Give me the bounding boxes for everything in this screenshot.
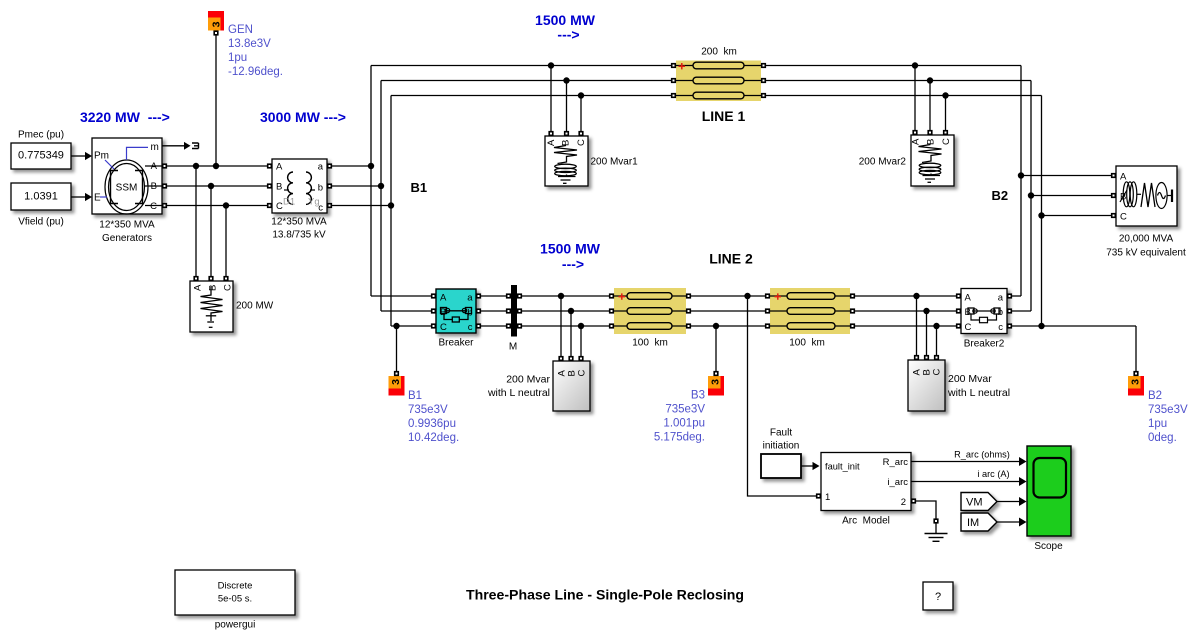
svg-text:Arc Model: Arc Model [842, 516, 890, 527]
wire transformer-b to left bus B [330, 185, 382, 187]
port 200MW B [208, 276, 213, 281]
generator 12*350 MVA Generators (SSM) [92, 138, 162, 244]
svg-text:C: C [932, 369, 943, 376]
node bus A junction [368, 163, 374, 169]
svg-text:D1: D1 [283, 197, 295, 208]
port 100km2 right A [850, 293, 855, 298]
port MvarL-left B [568, 356, 573, 361]
svg-text:Vfield (pu): Vfield (pu) [18, 217, 64, 228]
port transformer C [267, 203, 272, 208]
port LINE1 right C [761, 93, 766, 98]
port Breaker2 A [956, 293, 961, 298]
svg-text:1.001pu: 1.001pu [663, 418, 705, 430]
svg-text:?: ? [935, 591, 941, 603]
svg-text:3: 3 [390, 379, 402, 385]
wire breaker to M bus row A [479, 295, 509, 297]
wire MvarL-right drop B [926, 311, 928, 358]
wire breaker to M bus row C [479, 325, 509, 327]
ground symbol [925, 518, 948, 541]
port Breaker2 b [1007, 308, 1012, 313]
wire MvarL-right drop C [936, 326, 938, 358]
svg-text:VM: VM [966, 497, 983, 509]
wire source A [1021, 175, 1114, 177]
svg-text:Generators: Generators [102, 233, 152, 244]
svg-text:Scope: Scope [1034, 541, 1063, 552]
svg-text:1500 MW: 1500 MW [540, 241, 601, 257]
port Mvar2 B [927, 130, 932, 135]
node tap 200MW phase C [223, 202, 229, 208]
node tap GEN measurement [213, 163, 219, 169]
svg-text:B1: B1 [408, 390, 422, 402]
svg-text:Three-Phase Line - Single-Pole: Three-Phase Line - Single-Pole Reclosing [466, 587, 744, 603]
svg-text:b: b [318, 183, 323, 194]
wire right bus A vertical [1020, 66, 1022, 297]
wire IM to Scope [997, 518, 1027, 527]
port Breaker2 C [956, 323, 961, 328]
transmission line 100 km (second) [770, 288, 850, 349]
node source tap C [1038, 212, 1044, 218]
wire 100km1 to 100km2 row A [689, 295, 768, 297]
port Breaker2 c [1007, 323, 1012, 328]
text heading 1500 MW line2 [540, 241, 601, 273]
svg-text:200 Mvar: 200 Mvar [506, 374, 550, 386]
transformer 12*350 MVA 13.8/735 kV [271, 159, 327, 241]
wire fault tap to Arc Model input 1 [748, 296, 817, 496]
wire Breaker2-a to right bus A [1010, 295, 1022, 297]
svg-text:200 Mvar1: 200 Mvar1 [591, 157, 639, 168]
wire B2 measurement drop [1135, 326, 1137, 371]
wire source B [1031, 195, 1114, 197]
svg-text:c: c [468, 322, 473, 333]
svg-text:i_arc: i_arc [887, 477, 908, 488]
port Mvar1 A [548, 131, 553, 136]
svg-text:735e3V: 735e3V [408, 404, 448, 416]
svg-text:A: A [911, 138, 922, 145]
port generator C [162, 203, 167, 208]
wire 100km2 to Breaker2 row A [853, 295, 959, 297]
wire B3 measurement drop [715, 326, 717, 371]
wire Mvar2 drop C [945, 96, 947, 133]
wire LINE1 right row C [764, 95, 1042, 97]
svg-text:B: B [561, 140, 572, 146]
svg-text:m: m [151, 142, 159, 153]
svg-text:A: A [546, 139, 557, 146]
svg-text:1.0391: 1.0391 [24, 191, 58, 203]
wire MvarL-left drop A [560, 296, 562, 359]
wire transformer-a to left bus A [330, 165, 372, 167]
svg-text:12*350 MVA: 12*350 MVA [271, 217, 327, 228]
svg-text:A: A [440, 293, 447, 304]
wire LINE1 right row A [764, 65, 1022, 67]
wire 100km1 to 100km2 row C [689, 325, 768, 327]
port 100km2 right C [850, 323, 855, 328]
wire Mvar1 drop B [566, 81, 568, 134]
svg-text:c: c [998, 322, 1003, 333]
wire Breaker2-c to B2 measurement [1010, 325, 1137, 327]
svg-text:735e3V: 735e3V [1148, 404, 1188, 416]
port Breaker a [476, 293, 481, 298]
svg-text:A: A [276, 162, 283, 173]
svg-text:1pu: 1pu [1148, 418, 1167, 430]
port LINE1 left A [671, 63, 676, 68]
svg-text:Fault: Fault [770, 428, 792, 439]
shunt reactor 200 Mvar with L neutral (right) [908, 360, 1010, 411]
svg-text:0.9936pu: 0.9936pu [408, 418, 456, 430]
wire Mvar2 drop B [929, 81, 931, 133]
wire generator-A to transformer-A [165, 165, 270, 167]
svg-text:2: 2 [901, 497, 906, 508]
svg-text:a: a [318, 162, 324, 173]
svg-text:Pm: Pm [94, 151, 109, 162]
wire left bus C vertical [390, 96, 392, 327]
node fault tap phase A [744, 293, 750, 299]
svg-text:735 kV equivalent: 735 kV equivalent [1106, 248, 1186, 259]
shunt reactor 200 Mvar with L neutral (left) [487, 361, 590, 411]
transmission line LINE1 200 km [676, 47, 761, 125]
wire generator-C to transformer-C [165, 205, 270, 207]
node bus B junction [378, 183, 384, 189]
port 100km1 right C [686, 323, 691, 328]
constant Pmec (pu) 0.775349 [11, 130, 71, 170]
wire MvarL-right drop A [916, 296, 918, 358]
svg-text:LINE 1: LINE 1 [702, 108, 746, 124]
port B3 measurement [713, 371, 718, 376]
svg-text:Breaker2: Breaker2 [964, 339, 1005, 350]
port M right C [517, 323, 522, 328]
node B3 measurement tap [713, 323, 719, 329]
svg-text:R_arc (ohms): R_arc (ohms) [954, 450, 1010, 460]
svg-text:200 Mvar: 200 Mvar [948, 373, 992, 385]
svg-text:Yg: Yg [308, 197, 320, 208]
wire 100km2 to Breaker2 row B [853, 310, 959, 312]
port 100km2 left A [765, 293, 770, 298]
port MvarL-right A [914, 355, 919, 360]
text label B1 readout [408, 390, 459, 444]
measurement label block GEN [208, 11, 224, 31]
node Mvar2 tap A [912, 62, 918, 68]
bus bar M [509, 285, 517, 353]
port B2 measurement [1133, 371, 1138, 376]
wire Mvar1 drop A [550, 66, 552, 134]
port generator A [162, 163, 167, 168]
wire LINE1 right row B [764, 80, 1032, 82]
svg-text:initiation: initiation [763, 441, 800, 452]
port GEN measurement [213, 30, 218, 35]
node Mvar2 tap C [942, 92, 948, 98]
port source A [1111, 173, 1116, 178]
wire top row B to LINE1 [381, 80, 674, 82]
svg-text:0.775349: 0.775349 [18, 150, 64, 162]
svg-text:10.42deg.: 10.42deg. [408, 432, 459, 444]
port Breaker b [476, 308, 481, 313]
port Mvar2 C [943, 130, 948, 135]
svg-text:A: A [1120, 172, 1127, 183]
node MvarL-left tap C [578, 323, 584, 329]
svg-text:GEN: GEN [228, 24, 253, 36]
node source tap A [1018, 172, 1024, 178]
port 100km1 left B [609, 308, 614, 313]
svg-text:C: C [440, 322, 447, 333]
svg-text:1: 1 [825, 492, 830, 503]
port transformer c [327, 203, 332, 208]
svg-text:B3: B3 [691, 390, 705, 402]
from tag VM [961, 493, 997, 511]
wire fault initiation to Arc Model [801, 462, 820, 470]
wire MvarL-left drop C [580, 326, 582, 359]
port LINE1 right A [761, 63, 766, 68]
measurement label block B1 [389, 376, 405, 396]
svg-text:C: C [941, 138, 952, 145]
svg-text:a: a [998, 293, 1004, 304]
svg-text:E: E [94, 193, 101, 204]
node MvarL-right tap B [923, 308, 929, 314]
node right bus C junction [1038, 323, 1044, 329]
node MvarL-left tap B [568, 308, 574, 314]
wire 200MW phase A drop [195, 166, 197, 279]
port 100km2 left B [765, 308, 770, 313]
svg-text:B2: B2 [992, 188, 1009, 203]
wire right bus C vertical [1041, 96, 1043, 327]
wire bus to breaker B [381, 310, 434, 312]
svg-text:3: 3 [211, 21, 223, 27]
port Mvar1 B [564, 131, 569, 136]
svg-text:A: A [965, 293, 972, 304]
port 200MW C [223, 276, 228, 281]
svg-text:C: C [223, 284, 234, 291]
svg-text:20,000 MVA: 20,000 MVA [1119, 234, 1174, 245]
wire M to 100km1 row A [520, 295, 612, 297]
svg-text:a: a [467, 293, 473, 304]
port Mvar1 C [578, 131, 583, 136]
port generator B [162, 183, 167, 188]
port 100km2 right B [850, 308, 855, 313]
wire top row A to LINE1 [371, 65, 674, 67]
svg-text:fault_init: fault_init [825, 462, 860, 472]
wire bus to breaker C [391, 325, 434, 327]
port M left A [506, 293, 511, 298]
port Arc Model output 2 [911, 498, 916, 503]
port Breaker A [431, 293, 436, 298]
wire Breaker2-b to right bus B [1010, 310, 1032, 312]
svg-text:200 MW: 200 MW [236, 301, 274, 312]
port M right A [517, 293, 522, 298]
wire 100km1 to 100km2 row B [689, 310, 768, 312]
node Mvar1 tap B [563, 77, 569, 83]
port transformer b [327, 183, 332, 188]
svg-text:B2: B2 [1148, 390, 1162, 402]
svg-text:B: B [926, 139, 937, 145]
svg-text:i arc (A): i arc (A) [977, 469, 1009, 479]
port Breaker C [431, 323, 436, 328]
wire MvarL-left drop B [570, 311, 572, 359]
text heading 1500 MW top [535, 12, 596, 43]
svg-text:B1: B1 [411, 180, 428, 195]
step block Fault initiation [761, 428, 801, 479]
svg-text:3000 MW --->: 3000 MW ---> [260, 109, 346, 125]
svg-text:5e-05 s.: 5e-05 s. [218, 594, 252, 605]
wire generator-m-to-terminator [162, 142, 191, 150]
port LINE1 left B [671, 78, 676, 83]
svg-text:SSM: SSM [116, 183, 138, 194]
wire GEN measurement drop [215, 36, 217, 167]
wire left bus B vertical [380, 81, 382, 312]
wire right bus B vertical [1030, 81, 1032, 312]
svg-text:--->: ---> [562, 256, 584, 272]
svg-text:B: B [208, 285, 219, 291]
wire Pmec-to-generator [71, 152, 92, 160]
port Arc Model input 1 [816, 493, 821, 498]
wire M to 100km1 row B [520, 310, 612, 312]
node source tap B [1028, 192, 1034, 198]
port 100km1 right A [686, 293, 691, 298]
wire B1 measurement drop [396, 326, 398, 371]
node MvarL-right tap A [913, 293, 919, 299]
terminator on generator m output [192, 143, 199, 149]
port source C [1111, 213, 1116, 218]
node MvarL-right tap C [933, 323, 939, 329]
wire bus to breaker A [371, 295, 434, 297]
shunt reactor 200 Mvar2 [859, 135, 954, 186]
svg-text:M: M [509, 342, 517, 353]
svg-text:735e3V: 735e3V [665, 404, 705, 416]
wire Arc Model R_arc to Scope [911, 457, 1027, 466]
source 20,000 MVA 735 kV equivalent [1106, 166, 1186, 259]
svg-text:Discrete: Discrete [218, 581, 253, 592]
port M left B [506, 308, 511, 313]
wire Arc Model output 2 to ground [916, 501, 936, 519]
subsystem Arc Model [821, 453, 911, 527]
svg-text:C: C [1120, 212, 1127, 223]
wire generator-B to transformer-B [165, 185, 270, 187]
node MvarL-left tap A [558, 293, 564, 299]
svg-text:100 km: 100 km [789, 338, 825, 349]
svg-text:3: 3 [710, 379, 722, 385]
port Breaker c [476, 323, 481, 328]
svg-text:C: C [150, 201, 157, 212]
svg-text:200 km: 200 km [701, 47, 737, 58]
powergui block Discrete 5e-05 s [175, 570, 295, 631]
shunt reactor 200 Mvar1 [545, 136, 638, 186]
help block ? [923, 582, 953, 610]
port 100km1 right B [686, 308, 691, 313]
svg-text:IM: IM [967, 517, 979, 529]
svg-text:100 km: 100 km [632, 338, 668, 349]
svg-text:12*350 MVA: 12*350 MVA [99, 220, 155, 231]
wire Mvar1 drop C [580, 96, 582, 134]
wire VM to Scope [997, 497, 1027, 506]
text label B2 readout [1148, 390, 1188, 444]
svg-text:13.8/735 kV: 13.8/735 kV [272, 230, 326, 241]
port MvarL-left A [558, 356, 563, 361]
svg-text:B: B [276, 182, 282, 193]
node Mvar1 tap A [548, 62, 554, 68]
port 100km2 left C [765, 323, 770, 328]
node Mvar2 tap B [927, 77, 933, 83]
port M left C [506, 323, 511, 328]
port LINE1 right B [761, 78, 766, 83]
wire 100km2 to Breaker2 row C [853, 325, 959, 327]
port transformer B [267, 183, 272, 188]
constant Vfield (pu) 1.0391 [11, 183, 71, 228]
load block 200 MW [190, 281, 274, 332]
scope Scope [1027, 446, 1071, 552]
text label B3 readout [654, 390, 705, 444]
wire source C [1042, 215, 1114, 217]
wire Vfield-to-generator [71, 193, 92, 201]
port Mvar2 A [912, 130, 917, 135]
svg-text:powergui: powergui [215, 620, 256, 631]
svg-text:C: C [276, 201, 283, 212]
port 100km1 left A [609, 293, 614, 298]
svg-text:200 Mvar2: 200 Mvar2 [859, 157, 907, 168]
port transformer A [267, 163, 272, 168]
port MvarL-right C [934, 355, 939, 360]
port 200MW A [193, 276, 198, 281]
svg-text:Breaker: Breaker [438, 338, 474, 349]
port Breaker2 B [956, 308, 961, 313]
from tag IM [961, 513, 997, 531]
svg-text:5.175deg.: 5.175deg. [654, 432, 705, 444]
wire transformer-c to left bus C [330, 205, 392, 207]
port M right B [517, 308, 522, 313]
wire 200MW phase C drop [225, 206, 227, 279]
node B1 measurement tap [393, 323, 399, 329]
port transformer a [327, 163, 332, 168]
svg-text:C: C [577, 370, 588, 377]
port B1 measurement [394, 371, 399, 376]
svg-text:0deg.: 0deg. [1148, 432, 1177, 444]
wire breaker to M bus row B [479, 310, 509, 312]
wire left bus A vertical [370, 66, 372, 297]
wire M to 100km1 row C [520, 325, 612, 327]
svg-text:R_arc: R_arc [883, 457, 909, 468]
svg-text:LINE 2: LINE 2 [709, 251, 753, 267]
svg-text:3220 MW --->: 3220 MW ---> [80, 109, 170, 125]
measurement label block B2 [1128, 376, 1144, 396]
svg-text:3: 3 [1130, 379, 1142, 385]
node tap 200MW phase A [193, 163, 199, 169]
svg-text:13.8e3V: 13.8e3V [228, 38, 271, 50]
node Mvar1 tap C [578, 92, 584, 98]
svg-text:-12.96deg.: -12.96deg. [228, 66, 283, 78]
svg-text:C: C [965, 322, 972, 333]
text label GEN measurement readout [228, 24, 283, 78]
port MvarL-left C [578, 356, 583, 361]
port source B [1111, 193, 1116, 198]
port Breaker2 a [1007, 293, 1012, 298]
svg-text:--->: ---> [557, 27, 579, 43]
wire Mvar2 drop A [914, 66, 916, 133]
measurement label block B3 [708, 376, 724, 396]
port Breaker B [431, 308, 436, 313]
transmission line 100 km (first) [614, 288, 686, 349]
port 100km1 left C [609, 323, 614, 328]
node tap 200MW phase B [208, 183, 214, 189]
port MvarL-right B [924, 355, 929, 360]
circuit breaker Breaker [436, 289, 476, 349]
circuit breaker Breaker2 [961, 289, 1007, 350]
svg-text:Pmec (pu): Pmec (pu) [18, 130, 64, 141]
wire 200MW phase B drop [210, 186, 212, 279]
wire top row C to LINE1 [391, 95, 674, 97]
svg-text:A: A [193, 284, 204, 291]
wire Arc Model i_arc to Scope [911, 477, 1027, 486]
svg-text:1pu: 1pu [228, 52, 247, 64]
port LINE1 left C [671, 93, 676, 98]
svg-text:with L neutral: with L neutral [487, 387, 550, 399]
node bus C junction [388, 202, 394, 208]
svg-text:C: C [576, 139, 587, 146]
